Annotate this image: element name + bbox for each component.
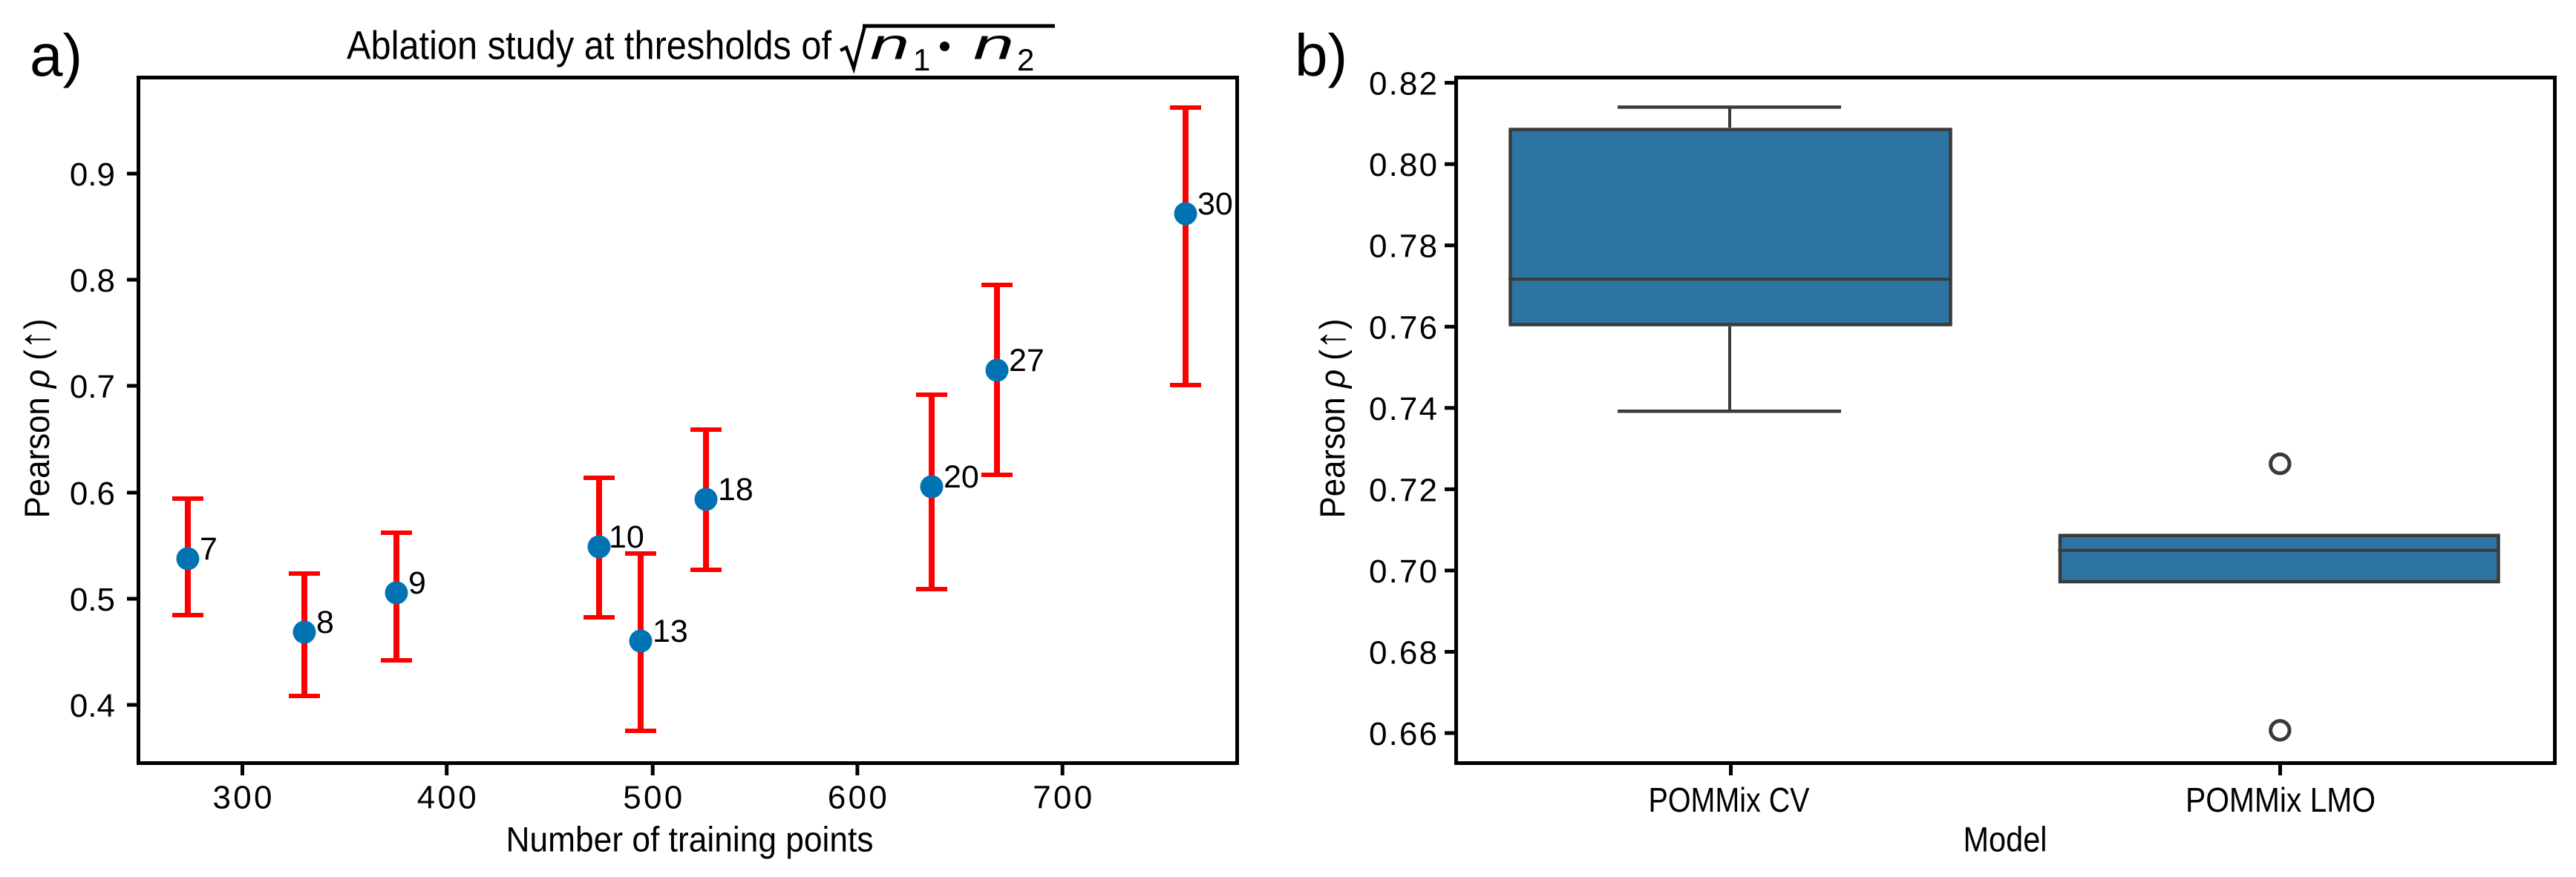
svg-text:18: 18 [718, 472, 753, 508]
svg-text:POMMix CV: POMMix CV [1649, 781, 1810, 819]
svg-text:n: n [973, 20, 1014, 68]
svg-text:300: 300 [213, 780, 272, 816]
svg-text:0.78: 0.78 [1369, 229, 1437, 265]
svg-text:10: 10 [609, 519, 644, 555]
svg-text:b): b) [1295, 22, 1347, 88]
svg-text:0.82: 0.82 [1369, 66, 1437, 102]
svg-text:20: 20 [944, 459, 979, 495]
svg-text:0.7: 0.7 [70, 369, 115, 405]
svg-text:0.9: 0.9 [70, 157, 115, 193]
svg-text:Model: Model [1964, 820, 2047, 859]
svg-text:30: 30 [1197, 186, 1233, 222]
svg-text:0.74: 0.74 [1369, 391, 1437, 427]
svg-text:a): a) [30, 22, 82, 88]
svg-text:13: 13 [653, 614, 688, 649]
svg-text:Ablation study at thresholds o: Ablation study at thresholds of [347, 23, 832, 68]
svg-text:n: n [870, 20, 909, 68]
svg-text:2: 2 [1017, 42, 1034, 77]
svg-text:0.4: 0.4 [70, 688, 115, 724]
svg-text:Number of training points: Number of training points [506, 820, 874, 859]
svg-text:8: 8 [316, 605, 334, 640]
svg-text:500: 500 [623, 780, 682, 816]
svg-text:0.70: 0.70 [1369, 554, 1437, 590]
svg-text:0.6: 0.6 [70, 476, 115, 512]
svg-text:7: 7 [200, 531, 218, 567]
svg-text:1: 1 [913, 42, 930, 77]
svg-text:0.5: 0.5 [70, 582, 115, 618]
svg-text:Pearson ρ (↑): Pearson ρ (↑) [10, 318, 59, 518]
svg-text:0.68: 0.68 [1369, 635, 1437, 671]
svg-text:400: 400 [417, 780, 477, 816]
svg-text:0.8: 0.8 [70, 263, 115, 299]
svg-text:27: 27 [1009, 343, 1045, 378]
svg-text:0.66: 0.66 [1369, 716, 1437, 752]
svg-text:0.80: 0.80 [1369, 147, 1437, 183]
svg-text:Pearson ρ (↑): Pearson ρ (↑) [1306, 318, 1354, 518]
svg-text:700: 700 [1033, 780, 1092, 816]
svg-text:0.76: 0.76 [1369, 309, 1437, 346]
svg-text:9: 9 [408, 565, 426, 601]
svg-text:POMMix LMO: POMMix LMO [2186, 781, 2376, 819]
svg-text:0.72: 0.72 [1369, 472, 1437, 508]
svg-text:600: 600 [828, 780, 887, 816]
